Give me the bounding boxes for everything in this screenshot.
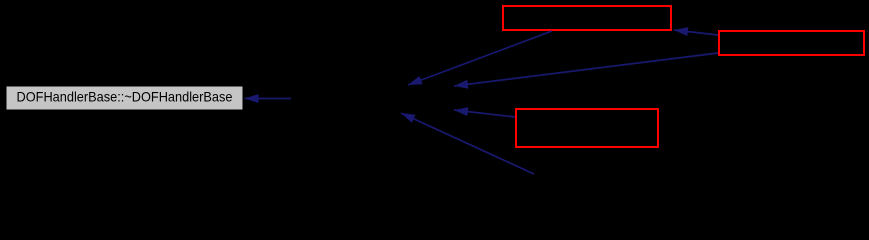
red node: middle truncated caller (516, 109, 658, 147)
red node: top truncated caller (503, 6, 671, 30)
red node: right truncated caller (719, 31, 864, 55)
edge: offscreen bottom caller -> middle node (401, 113, 534, 174)
edge: middle red box -> middle node (454, 110, 515, 117)
edge: middle node -> grey node (245, 98, 292, 100)
edge: top red box -> middle node (408, 31, 552, 85)
node: DOFHandlerBase::~DOFHandlerBase (current, grey) (6, 86, 243, 110)
edge: right red box -> top red box (674, 30, 718, 35)
svg-text:DOFHandlerBase::~DOFHandlerBas: DOFHandlerBase::~DOFHandlerBase (17, 90, 233, 105)
edge: right red box -> middle node (454, 53, 718, 86)
